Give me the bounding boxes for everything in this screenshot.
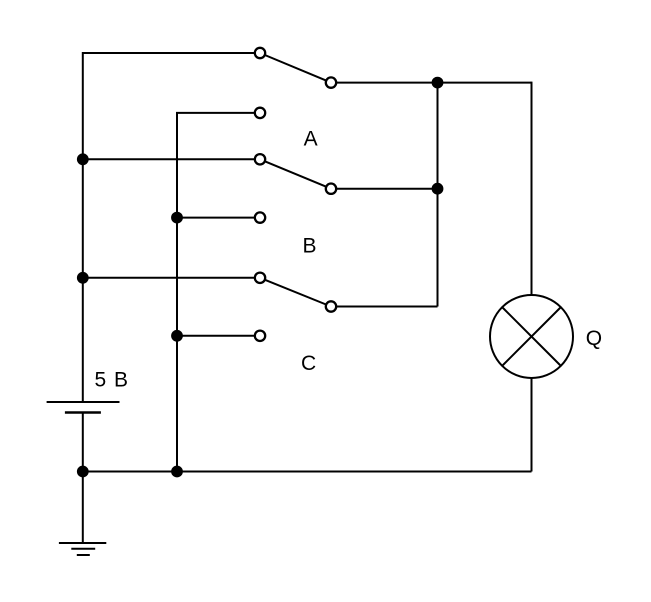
junction node: left bus / row5 — [77, 272, 89, 284]
junction node: left bus / row3 — [77, 153, 89, 165]
wire: right bus vertical x=437.5 — [437, 83, 439, 307]
svg-text:Q: Q — [586, 327, 602, 350]
battery GB1 top plate (long, positive) — [47, 401, 120, 403]
wire: lamp bottom down to bottom bus — [531, 378, 533, 472]
junction node: inner bus / bottom bus — [171, 466, 183, 478]
switch B upper contact terminal — [255, 154, 265, 164]
switch A arm (pole at upper contact, thrown to common) — [260, 53, 331, 83]
wire: row4 horizontal inner bus to switch B lower contact — [177, 217, 260, 219]
svg-text:5 B: 5 B — [95, 369, 129, 392]
switch C lower contact terminal — [255, 331, 265, 341]
switch B arm — [260, 159, 331, 188]
battery GB1 bottom plate (short, negative) — [65, 411, 101, 414]
ground bar 2 (middle) — [71, 548, 95, 550]
lamp Q cross diagonal 1 — [503, 308, 561, 366]
junction node: inner bus / row4 — [171, 212, 183, 224]
lamp Q cross diagonal 2 — [503, 308, 561, 366]
switch A common terminal — [326, 77, 336, 87]
ground stem — [82, 472, 84, 544]
wire: bottom bus horizontal — [83, 471, 532, 473]
wire: switch B common to right bus — [331, 188, 438, 190]
switch B common terminal — [326, 184, 336, 194]
svg-text:C: C — [301, 352, 316, 375]
switch C arm — [260, 278, 331, 307]
ground bar 3 (shortest) — [77, 554, 90, 556]
wire: left bus vertical (upper segment, down to battery top plate) — [82, 52, 84, 402]
wire: top horizontal from left bus to switch A upper contact — [83, 52, 260, 54]
wire: row5 horizontal left bus to switch C upper contact (crosses inner bus) — [83, 277, 260, 279]
wire: row3 horizontal left bus to switch B upper contact (crosses inner bus) — [83, 158, 260, 160]
switch A lower contact terminal — [255, 108, 265, 118]
lamp Q circle — [490, 295, 573, 378]
junction node: right bus / switch A output — [432, 77, 444, 89]
junction node: right bus / switch B output — [432, 183, 444, 195]
wire: left bus vertical (battery bottom plate down to bottom bus) — [82, 413, 84, 472]
wire: inner bus vertical x=177 from switch A lower contact row down to bottom bus — [176, 113, 178, 472]
junction node: inner bus / row6 — [171, 330, 183, 342]
ground bar 1 (widest) — [59, 542, 106, 544]
svg-text:A: A — [304, 127, 318, 150]
wire: switch A common to top-right corner — [331, 82, 532, 84]
wire: row2 horizontal inner bus to switch A lower contact — [176, 112, 260, 114]
switch C common terminal — [326, 301, 336, 311]
svg-text:B: B — [302, 235, 316, 258]
switch A upper contact terminal — [255, 48, 265, 58]
wire: row6 horizontal inner bus to switch C lower contact — [177, 335, 260, 337]
switch B lower contact terminal — [255, 212, 265, 222]
junction node: left bus / bottom bus — [77, 466, 89, 478]
wire: lamp feed vertical from top-right corner down to lamp top — [531, 82, 533, 296]
wire: switch C common to right bus bottom corner — [331, 306, 438, 308]
switch C upper contact terminal — [255, 273, 265, 283]
